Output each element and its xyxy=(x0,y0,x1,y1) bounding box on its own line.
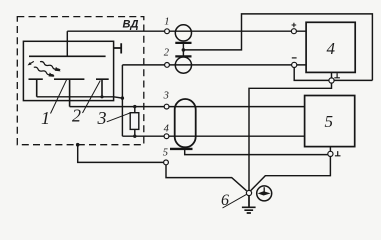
svg-text:4: 4 xyxy=(164,124,170,135)
wire: terminal5 to earth point xyxy=(166,165,247,191)
wire: unit5 ground drop to earth point xyxy=(251,157,331,191)
radiation wavy arrow 1 xyxy=(39,60,61,74)
wire: top plate riser xyxy=(66,31,68,56)
electrode 2 (middle collector) xyxy=(54,79,84,106)
chamber top electrode plate xyxy=(29,55,106,57)
node: resistor bottom dot xyxy=(133,135,136,138)
node: case wire dot xyxy=(121,96,124,99)
leader line for label 1 xyxy=(51,79,68,114)
wire: resistor top stem xyxy=(134,107,136,113)
svg-text:1: 1 xyxy=(41,108,50,128)
minus sign xyxy=(292,57,297,59)
svg-text:3: 3 xyxy=(97,108,107,128)
unit 4 (power supply) xyxy=(306,22,355,72)
radiation wavy arrow 2 xyxy=(33,65,55,79)
chassis symbol unit 5 xyxy=(335,151,341,156)
svg-text:3: 3 xyxy=(163,91,169,102)
feedthrough capacitor C1 xyxy=(175,25,191,41)
terminal 2 xyxy=(165,63,170,68)
node: capacitor common tap xyxy=(182,48,186,52)
terminal 1 xyxy=(165,29,170,34)
case stub electrode xyxy=(114,43,122,53)
svg-text:5: 5 xyxy=(325,112,334,131)
screen bottom bar xyxy=(170,148,193,150)
terminal 5 xyxy=(164,160,169,165)
wire: resistor bottom stem xyxy=(134,129,136,136)
svg-text:1: 1 xyxy=(164,17,169,28)
svg-text:2: 2 xyxy=(164,48,170,59)
terminal - of unit 4 xyxy=(292,62,297,67)
electrode 3 (right guard) xyxy=(96,79,109,97)
ionization chamber case xyxy=(23,41,113,100)
wire 4 xyxy=(122,135,304,137)
node: resistor top dot xyxy=(133,105,136,108)
terminal chassis of unit 5 xyxy=(328,151,333,156)
leader line for label 2 xyxy=(83,81,101,114)
shielded cable screen xyxy=(175,99,196,147)
wire: C1 plate to tap xyxy=(182,43,184,56)
node: guard junction dot xyxy=(100,95,103,98)
earth ground symbol xyxy=(242,196,256,213)
radiation arrow small xyxy=(27,60,35,66)
earth junction xyxy=(246,190,251,195)
feedthrough capacitor C2 xyxy=(175,55,191,57)
terminal chassis of unit 4 xyxy=(329,78,334,83)
svg-text:6: 6 xyxy=(221,192,229,209)
terminal 4 xyxy=(164,134,169,139)
unit 5 xyxy=(305,96,355,147)
detector block BD dashed enclosure xyxy=(17,17,144,145)
wire: guard electrodes to node xyxy=(37,97,123,98)
svg-text:2: 2 xyxy=(72,106,81,126)
leader line for label 6 xyxy=(223,194,247,208)
wire: unit4 bottom stub xyxy=(331,72,333,78)
grounding bolt symbol xyxy=(257,186,272,201)
wire 3 xyxy=(70,106,305,108)
wire 2 xyxy=(122,64,306,66)
terminal + of unit 4 xyxy=(291,29,296,34)
chassis symbol unit 4 xyxy=(334,73,340,78)
wire: minus terminal to chassis xyxy=(294,68,372,81)
wire: unit5 bottom stub xyxy=(329,147,331,152)
terminal 3 xyxy=(164,104,169,109)
resistor R (3) xyxy=(130,113,139,130)
wire: screen to unit5 ground xyxy=(185,150,328,155)
wire 1 (HV line) xyxy=(67,30,306,32)
electrode 1 (left guard) xyxy=(29,79,43,97)
wire: tap to chassis top wrap xyxy=(183,14,372,81)
wire: unit4 ground to earth point xyxy=(249,83,332,190)
svg-text:4: 4 xyxy=(327,39,336,58)
plus sign xyxy=(292,23,297,28)
wire: case riser (wire2 to wire4) xyxy=(121,65,123,136)
svg-text:ВД: ВД xyxy=(123,19,139,31)
node: BD case connection dot xyxy=(76,143,80,147)
leader line for label 3 xyxy=(107,113,130,122)
svg-text:5: 5 xyxy=(163,147,168,158)
wire: BD case to terminal 5 xyxy=(78,145,164,163)
